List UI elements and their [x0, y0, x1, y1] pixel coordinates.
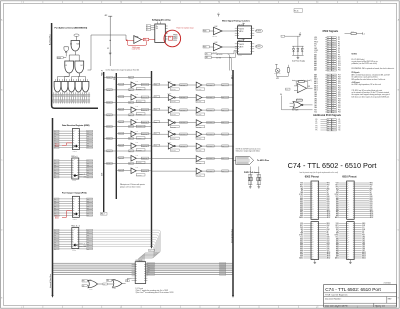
AND gate U4 (row2 right) [75, 61, 84, 73]
signal row AB5 [314, 64, 341, 67]
svg-text:DB2: DB2 [370, 200, 373, 202]
nand gate U21 [293, 102, 302, 109]
signal row AB4 [314, 62, 341, 65]
svg-text:Date: 2017-04-28 3:28 PM: Date: 2017-04-28 3:28 PM [325, 304, 348, 307]
svg-text:VSS: VSS [336, 183, 339, 185]
svg-text:74x245: 74x245 [73, 218, 77, 220]
row2 extra input tags [205, 53, 211, 55]
svg-text:DB4: DB4 [327, 244, 330, 246]
svg-text:WRT EN5: WRT EN5 [171, 150, 176, 152]
svg-text:74x245: 74x245 [73, 151, 77, 153]
pin rows chip y=227.5 [54, 229, 93, 231]
svg-text:3K3: 3K3 [351, 31, 353, 33]
svg-text:PA(0..7): PA(0..7) [101, 69, 104, 76]
svg-text:DB3: DB3 [314, 101, 317, 103]
pin row 6502 28 [300, 236, 330, 238]
svg-text:P30: P30 [338, 103, 341, 105]
svg-text:DR2: DR2 [87, 135, 90, 137]
svg-text:74x240: 74x240 [167, 81, 171, 83]
signal row P5 [316, 129, 341, 131]
svg-text:DB3: DB3 [327, 242, 330, 244]
pin row 6510 29 [336, 237, 365, 240]
driver stage row PA5 [151, 142, 196, 152]
svg-text:DR3: DR3 [87, 167, 90, 169]
signal row IRQ [314, 43, 340, 45]
signal row P4 [316, 127, 341, 129]
svg-text:P25: P25 [338, 92, 341, 94]
output oval tag row 1 [255, 29, 262, 32]
svg-text:RES: RES [327, 183, 330, 185]
PA bus A (thick vertical x=103.7) [103, 72, 105, 212]
svg-text:WRT EN1: WRT EN1 [171, 101, 176, 103]
output buffer row PA3 [196, 120, 234, 129]
svg-text:WRT EN0: WRT EN0 [171, 89, 176, 91]
signal row RDY [314, 39, 340, 41]
pin row 6502 23 [300, 227, 329, 229]
svg-text:DR1: DR1 [87, 201, 90, 203]
svg-text:DR0: DR0 [87, 198, 90, 200]
svg-text:P20: P20 [338, 81, 341, 83]
pin row 6502 37 [300, 253, 330, 256]
pin row 6502 11 [300, 201, 329, 204]
pin row 6510 31 [336, 241, 365, 244]
pin row 6510 19 [335, 216, 373, 219]
phi2 wire down [109, 16, 111, 66]
svg-text:DR0: DR0 [87, 160, 90, 162]
svg-text:DB6: DB6 [370, 207, 373, 209]
connector: to 6510 pins [236, 156, 254, 164]
pin row 6502 38 [300, 255, 330, 258]
svg-text:DR3: DR3 [87, 206, 90, 208]
pin row 6502 39 [299, 257, 330, 260]
svg-text:DB0: DB0 [327, 237, 330, 239]
svg-text:PU/PV Pull-downs: PU/PV Pull-downs [244, 172, 259, 174]
svg-text:+5: +5 [299, 33, 301, 35]
svg-text:DB2: DB2 [362, 240, 365, 242]
bottom wire loop [276, 75, 288, 77]
pinout chip body 6502 lower [311, 222, 319, 260]
svg-text:GND: GND [83, 177, 86, 179]
svg-text:DB7: DB7 [327, 250, 330, 252]
pin row 6502 17 [300, 212, 330, 215]
svg-text:E: E [1, 298, 2, 300]
pin row 6510 16 [336, 210, 374, 213]
driver stage row PA0 [151, 81, 196, 91]
svg-text:P1: P1 [338, 37, 340, 39]
svg-text:DB7: DB7 [327, 209, 330, 211]
pinout chip body 6502 upper [311, 181, 319, 219]
pin rows chip y=196.3 [54, 198, 93, 200]
pin row 6502 30 [300, 239, 329, 242]
svg-text:DR1: DR1 [87, 163, 90, 165]
svg-text:DR7: DR7 [87, 215, 90, 217]
svg-text:Write Signal Timing / Latches: Write Signal Timing / Latches [222, 19, 251, 22]
long feed wire row PA7 [152, 170, 197, 172]
pin row 6502 25 [301, 231, 330, 233]
direction arrow in chip y=128.5 [74, 145, 78, 147]
svg-text:OUT EN6: OUT EN6 [196, 162, 201, 164]
gnd stubs chip y=158.0 [79, 176, 83, 178]
svg-text:DR2: DR2 [87, 203, 90, 205]
pin row 6502 35 [300, 249, 329, 252]
direction arrow in chip y=158.0 [74, 174, 78, 176]
AND gate U5 [54, 82, 61, 93]
pin row 6502 27 [299, 235, 330, 237]
svg-text:DB5: DB5 [314, 96, 317, 98]
pin row 6502 6 [300, 192, 329, 194]
pin rows chip y=158.0 [54, 160, 93, 162]
svg-text:74x1: 74x1 [136, 106, 139, 108]
pullup chain beside header [345, 33, 352, 35]
svg-text:DB0: DB0 [327, 196, 330, 198]
decoder chip U11 (74x139) [155, 24, 166, 42]
svg-text:$0000: $0000 [57, 57, 61, 59]
svg-text:P27: P27 [338, 96, 341, 98]
signal row DB4 [314, 98, 341, 100]
svg-text:REV:: REV: [388, 298, 392, 300]
phi2 ground symbol [109, 50, 111, 53]
svg-text:DR6: DR6 [87, 244, 90, 246]
svg-text:74x1: 74x1 [136, 119, 139, 121]
mid bus C (thick vertical x=151.5) [151, 71, 153, 247]
svg-text:LE1: LE1 [205, 53, 208, 55]
svg-text:PH1: PH1 [300, 227, 303, 229]
svg-text:RDY: RDY [300, 225, 303, 227]
input pin tag row (upper) [53, 94, 90, 97]
register chip at y=158.0 [72, 158, 79, 179]
svg-text:74x1: 74x1 [136, 155, 139, 157]
pinout 6502 bottom gnd [314, 260, 316, 263]
pin row 6510 37 [336, 253, 366, 256]
svg-text:DR5: DR5 [87, 142, 90, 144]
output buffer row PA5 [196, 143, 234, 152]
gate G2 (74x32) [113, 280, 123, 288]
svg-text:VSS: VSS [300, 183, 303, 185]
svg-text:DB0: DB0 [362, 237, 365, 239]
svg-text:74x245: 74x245 [72, 180, 76, 182]
driver stage row PA1 [151, 93, 196, 103]
red wire buffer to decoder [141, 39, 143, 41]
pin row 6502 33 [300, 245, 329, 248]
output buffer row PA6 [196, 156, 234, 165]
diode bank D1-D3 [292, 45, 303, 47]
svg-text:P29: P29 [338, 101, 341, 103]
svg-text:P5: P5 [338, 46, 340, 48]
pin row 6510 22 [336, 225, 366, 227]
border ruler ticks bottom [23, 306, 377, 309]
svg-text:P22: P22 [338, 85, 341, 87]
signal row AB7 [314, 69, 341, 72]
svg-text:U1: U1 [70, 44, 72, 46]
red junction dot (marked) [126, 40, 128, 42]
signal row AB10 [314, 78, 341, 81]
feedback resistor R2 [299, 81, 305, 83]
svg-text:DR1: DR1 [87, 232, 90, 234]
svg-text:RD: RD [107, 280, 109, 282]
svg-text:P4: P4 [316, 127, 318, 129]
pin row 6510 7 [335, 194, 373, 196]
+5 flag top [217, 14, 219, 16]
svg-text:OE: OE [126, 280, 128, 282]
svg-text:OUT EN1: OUT EN1 [196, 101, 201, 103]
svg-text:P21: P21 [338, 83, 341, 85]
signal row AB11 [314, 80, 341, 83]
pin row 6510 9 [336, 197, 373, 200]
svg-text:DB0.7: DB0.7 [149, 250, 153, 252]
pin row 6502 21 [300, 223, 330, 225]
wire buffer to latch U15 [222, 46, 237, 48]
svg-text:DR8: DR8 [87, 248, 90, 250]
svg-text:Y0: Y0 [169, 37, 171, 39]
svg-text:Port Address Detect ($0000/$00: Port Address Detect ($0000/$0001) [55, 26, 88, 29]
op-amp U20 [297, 84, 306, 93]
svg-text:74x32: 74x32 [113, 288, 117, 290]
buffer U13 [214, 43, 223, 50]
svg-text:OUT EN2: OUT EN2 [196, 114, 201, 116]
svg-text:74x240: 74x240 [167, 106, 171, 108]
pin row 6510 4 [336, 188, 373, 190]
lower rail wire [282, 109, 313, 111]
bottom chip U30 (74x245) [135, 262, 146, 284]
driver stage row PA2 [151, 106, 196, 116]
pin row 6502 22 [300, 225, 330, 227]
svg-text:NOTES:: NOTES: [352, 54, 358, 56]
svg-text:RW1: RW1 [203, 46, 206, 48]
pin row 6510 3 [336, 186, 373, 188]
title block divider 1 [324, 292, 397, 294]
svg-text:EN: EN [147, 29, 149, 31]
svg-text:PH0: PH0 [370, 188, 373, 190]
svg-text:P26: P26 [338, 94, 341, 96]
svg-text:SYNC: SYNC [314, 50, 318, 52]
svg-text:DB7: DB7 [362, 250, 365, 252]
red wire into buffer U10 [127, 39, 134, 41]
svg-text:DB3: DB3 [327, 202, 330, 204]
wires U1 outputs down to row2 gates [74, 52, 76, 55]
svg-text:6510 Pinout: 6510 Pinout [342, 175, 356, 179]
net connector ellipse at tree top [74, 34, 79, 36]
pin row 6510 38 [336, 255, 366, 258]
svg-text:DB4: DB4 [370, 204, 373, 206]
svg-text:P24: P24 [338, 90, 341, 92]
diode D1 [293, 46, 295, 48]
signal row AB3 [314, 60, 341, 63]
pin row 6502 2 [300, 184, 330, 186]
svg-text:DR7: DR7 [87, 246, 90, 248]
pin row 6510 2 [336, 184, 373, 186]
pin row 6510 13 [336, 204, 373, 207]
top-right sheet label [294, 9, 303, 12]
AND gate U3 (row2 left) [65, 61, 74, 73]
svg-text:DB3: DB3 [370, 202, 373, 204]
wire: detect output to address decoding [91, 35, 126, 70]
port bit cell row PA5 [103, 137, 151, 152]
svg-text:$0001: $0001 [55, 218, 59, 220]
svg-text:DB7: DB7 [314, 92, 317, 94]
direction arrow in chip y=227.5 [74, 244, 78, 246]
signal row PH1O [314, 41, 340, 43]
svg-text:DR1: DR1 [87, 133, 90, 135]
signal row RW [314, 109, 341, 111]
svg-text:PORTW: PORTW [256, 31, 262, 33]
svg-text:DR3: DR3 [87, 138, 90, 140]
pin row 6510 8 [336, 196, 373, 198]
pin row 6502 16 [300, 210, 330, 213]
port bit cell row PA1 [103, 88, 151, 103]
svg-text:P28: P28 [338, 98, 341, 100]
svg-text:74x1: 74x1 [136, 81, 139, 83]
svg-text:Document Number:: Document Number: [325, 298, 342, 301]
+5 stub above latch 1 [243, 24, 245, 26]
svg-text:C74 - TTL 6502: 6510 Port: C74 - TTL 6502: 6510 Port [325, 287, 381, 292]
svg-text:DB5: DB5 [327, 246, 330, 248]
pin row 6510 26 [336, 233, 365, 235]
svg-text:74x08: 74x08 [89, 289, 93, 291]
svg-text:To 6510 Pins: To 6510 Pins [257, 160, 270, 162]
svg-text:P3: P3 [338, 41, 340, 43]
phi2 junction [110, 40, 111, 41]
register chip at y=227.5 [72, 228, 79, 249]
svg-text:GND: GND [83, 246, 86, 248]
svg-text:DR4: DR4 [87, 140, 90, 142]
svg-text:U30 74x245: U30 74x245 [135, 260, 142, 262]
svg-text:PH2: PH2 [327, 184, 330, 186]
input tag PH0 [285, 88, 290, 90]
pin row 6502 4 [300, 188, 329, 190]
svg-text:C30: C30 [89, 279, 92, 281]
transistor Q2 [287, 65, 289, 68]
svg-text:DR2: DR2 [87, 165, 90, 167]
svg-text:PH1: PH1 [336, 227, 339, 229]
svg-text:74x1: 74x1 [136, 130, 139, 132]
signal row P0 [316, 119, 341, 121]
svg-text:DB1: DB1 [327, 198, 330, 200]
svg-text:74x573: 74x573 [239, 28, 244, 30]
U30 pin stubs and inner ticks [132, 264, 148, 280]
signal row DB0 [314, 107, 341, 109]
svg-text:Sheets: 2/2: Sheets: 2/2 [375, 304, 385, 307]
pinout chip body 6510 upper [347, 181, 355, 219]
svg-text:PRW1: PRW1 [173, 36, 177, 38]
pin row 6502 26 [300, 233, 329, 235]
svg-text:74x240: 74x240 [167, 142, 171, 144]
svg-text:VSS: VSS [300, 223, 303, 225]
svg-text:DR0: DR0 [87, 131, 90, 133]
series resistor R10 [296, 99, 302, 101]
svg-text:OUT EN4: OUT EN4 [196, 138, 201, 140]
svg-text:PRD0: PRD0 [173, 38, 177, 40]
signal row AB13 [314, 84, 341, 87]
red bypass loop under buffer [127, 41, 146, 45]
svg-text:DR6: DR6 [87, 145, 90, 147]
svg-text:$0000: $0000 [55, 146, 59, 148]
svg-text:Port Output / Output (PO0): Port Output / Output (PO0) [62, 192, 87, 195]
svg-text:K1: K1 [339, 119, 341, 121]
internal data bus left (thick vertical) [52, 118, 54, 296]
svg-text:PH2: PH2 [308, 86, 311, 88]
svg-text:DB4: DB4 [327, 204, 330, 206]
pin row 6502 14 [300, 206, 329, 209]
signal row VCC [314, 52, 340, 54]
signal row DB2 [314, 102, 341, 104]
pin row 6510 17 [336, 212, 374, 215]
signal row P2 [316, 123, 341, 125]
svg-text:DB1: DB1 [314, 105, 317, 107]
svg-text:P2-15: P2-15 [294, 11, 298, 13]
svg-text:P3: P3 [316, 125, 318, 127]
svg-text:K3: K3 [339, 123, 341, 125]
svg-text:PH0: PH0 [327, 229, 330, 231]
svg-text:K4: K4 [339, 125, 341, 127]
svg-text:DB6: DB6 [314, 94, 317, 96]
svg-text:DR6: DR6 [87, 174, 90, 176]
pin row 6502 7 [299, 194, 330, 196]
svg-text:U3: U3 [65, 65, 67, 67]
svg-text:74x1: 74x1 [136, 94, 139, 96]
svg-text:DR5: DR5 [87, 241, 90, 243]
PA bus B (thick vertical x=116.3) [115, 73, 117, 199]
svg-text:P1: P1 [316, 121, 318, 123]
signal row AB1 [314, 56, 341, 59]
svg-text:TITLE: Card 15: Beginners: TITLE: Card 15: Beginners [325, 294, 348, 297]
pin row 6510 27 [335, 235, 366, 237]
bottom horizontal data bus lines [53, 263, 234, 274]
svg-text:SEL: SEL [144, 39, 147, 41]
svg-text:74x573: 74x573 [238, 55, 242, 57]
svg-text:RDY: RDY [300, 184, 303, 186]
title block divider 2 [324, 296, 397, 298]
signal row AB14 [314, 86, 341, 89]
svg-text:Internal Data Bus: Internal Data Bus [49, 274, 52, 288]
svg-text:DB4: DB4 [314, 98, 317, 100]
pin row 6502 19 [299, 216, 330, 219]
svg-text:DR7: DR7 [87, 177, 90, 179]
pin row 6510 28 [336, 236, 366, 238]
input comb wires below row3 gates [54, 92, 89, 103]
bus tag boxes right of chip [147, 262, 154, 276]
svg-text:DR4: DR4 [87, 208, 90, 210]
svg-text:C74 - TTL 6502 - 6510 Port: C74 - TTL 6502 - 6510 Port [288, 161, 377, 170]
signal row AB8 [314, 73, 341, 76]
svg-text:K5: K5 [339, 127, 341, 129]
svg-text:PH1: PH1 [300, 186, 303, 188]
svg-text:B: B [1, 90, 2, 92]
port bit cell row PA0 [103, 76, 151, 91]
svg-text:PRW0: PRW0 [173, 35, 177, 37]
red patched net box [168, 36, 172, 40]
svg-text:DR5: DR5 [87, 172, 90, 174]
pin row 6510 1 [336, 183, 373, 185]
svg-text:RES: RES [370, 183, 373, 185]
svg-text:74x: 74x [156, 26, 159, 28]
svg-text:OE1: OE1 [205, 57, 208, 59]
svg-text:2N7000 (x2): 2N7000 (x2) [274, 73, 281, 75]
svg-text:4 HC: 4 HC [215, 42, 218, 44]
output buffer row PA1 [196, 95, 234, 104]
svg-text:+5: +5 [363, 33, 365, 35]
svg-text:DB3: DB3 [362, 242, 365, 244]
pin row 6510 18 [336, 214, 374, 217]
svg-text:P8: P8 [338, 52, 340, 54]
svg-text:P17: P17 [338, 74, 341, 76]
svg-text:P6: P6 [338, 48, 340, 50]
wire G1 to G2 [98, 283, 103, 285]
svg-text:DB2: DB2 [327, 240, 330, 242]
pin row 6502 18 [300, 214, 330, 217]
svg-text:OUT EN0: OUT EN0 [196, 89, 201, 91]
signal row AB6 [314, 66, 341, 69]
signal row P3 [316, 125, 341, 127]
